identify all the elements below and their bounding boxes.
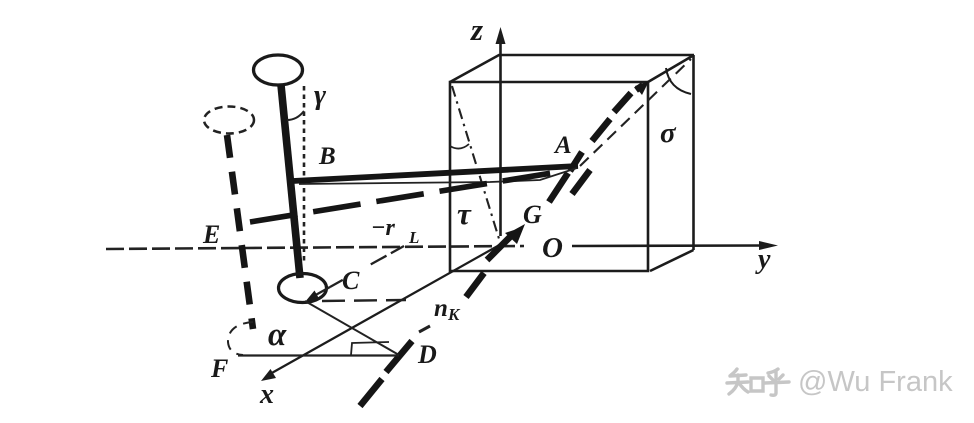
gamma angle arc — [287, 111, 304, 120]
thin line under BA — [299, 168, 577, 184]
arrow into bob — [312, 287, 330, 297]
alpha dashed arc at F — [228, 322, 253, 355]
svg-text:F: F — [210, 354, 228, 383]
svg-text:K: K — [447, 305, 461, 324]
right angle marker at D — [351, 342, 389, 355]
svg-text:γ: γ — [314, 79, 327, 111]
pendulum 2 dashed rod — [227, 135, 253, 329]
thick rod line B to A — [293, 166, 578, 181]
svg-text:τ: τ — [457, 196, 472, 231]
tau diagonal dash-dot line on left face — [452, 86, 500, 242]
cube back-right edge — [692, 55, 695, 250]
pendulum bob ellipse — [279, 274, 327, 303]
sigma angle arc — [666, 68, 691, 94]
x-axis — [270, 243, 503, 374]
svg-text:C: C — [342, 266, 360, 295]
svg-text:x: x — [259, 379, 274, 410]
cube bottom-right edge — [650, 250, 694, 271]
cube top face back edges — [450, 55, 694, 82]
svg-text:G: G — [523, 200, 542, 229]
line F to D — [238, 354, 399, 356]
arrowhead of n_K diagonal at top corner — [635, 81, 649, 95]
horizontal dashed line from bob — [322, 300, 406, 301]
svg-text:A: A — [553, 132, 572, 159]
svg-text:σ: σ — [660, 117, 677, 149]
dashed line from -rL to bob — [330, 246, 404, 287]
pendulum balloon ellipse — [254, 55, 303, 85]
svg-text:z: z — [470, 12, 483, 47]
tau angle tick — [450, 144, 469, 149]
pendulum rod (thick) — [281, 85, 300, 278]
vertical dotted reference line — [303, 86, 306, 262]
svg-text:y: y — [755, 244, 771, 275]
svg-text:−r: −r — [371, 215, 396, 241]
small dash on n_K line near D — [419, 326, 430, 332]
cube front face — [450, 82, 648, 271]
svg-text:α: α — [268, 317, 287, 353]
svg-text:n: n — [434, 295, 448, 322]
arrowhead of n_K diagonal at G — [505, 224, 525, 244]
thin dashed diagonal A to back corner — [580, 59, 691, 166]
svg-text:D: D — [417, 340, 437, 369]
y-axis dashed left part — [106, 246, 524, 249]
svg-text:B: B — [318, 143, 336, 170]
cube top-right connector — [648, 55, 694, 82]
svg-text:O: O — [542, 232, 563, 264]
svg-text:L: L — [408, 228, 419, 247]
thick dashed diagonal n_K line segments — [360, 85, 643, 406]
y-axis solid part — [572, 244, 765, 247]
svg-text:E: E — [202, 220, 220, 249]
watermark latin text — [798, 366, 953, 399]
line bob to D — [305, 301, 399, 355]
z-axis — [499, 40, 502, 236]
pendulum 2 dashed ellipse — [204, 107, 254, 134]
watermark zhihu characters — [727, 369, 789, 395]
thick dashed line E to A — [250, 173, 552, 222]
